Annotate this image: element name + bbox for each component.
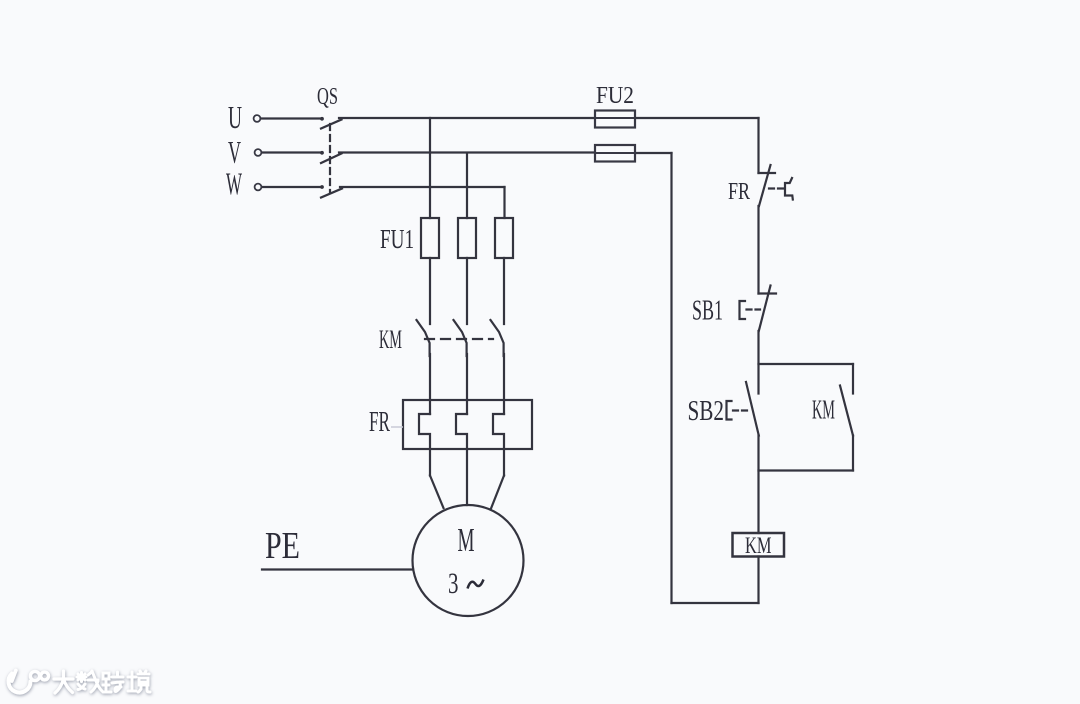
svg-text:FR: FR <box>728 179 750 205</box>
svg-text:FU2: FU2 <box>596 82 634 109</box>
svg-text:PE: PE <box>265 525 300 567</box>
svg-text:U: U <box>228 99 242 135</box>
svg-text:FR: FR <box>369 406 390 438</box>
svg-text:KM: KM <box>812 395 835 425</box>
svg-text:3: 3 <box>448 567 459 600</box>
svg-text:W: W <box>226 166 242 202</box>
svg-text:KM: KM <box>745 533 772 559</box>
svg-text:FU1: FU1 <box>380 223 414 254</box>
svg-text:SB2: SB2 <box>688 396 725 427</box>
svg-text:M: M <box>458 522 475 559</box>
svg-text:KM: KM <box>379 325 402 354</box>
svg-text:QS: QS <box>317 83 338 110</box>
svg-text:SB1: SB1 <box>692 296 723 327</box>
